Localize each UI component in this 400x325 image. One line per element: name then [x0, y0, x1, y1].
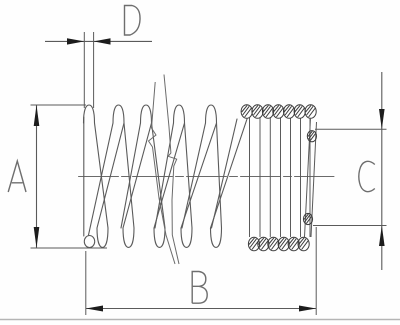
dimension B arrow right	[299, 306, 316, 312]
dimension D leader line	[45, 40, 152, 42]
dimension D extension line right	[93, 32, 95, 108]
dimension A extension top	[31, 104, 87, 106]
end wire section circle lower right	[303, 213, 312, 224]
break line B with jag	[164, 75, 179, 265]
back strand v4-c5	[181, 123, 217, 228]
spring coil cap 5	[206, 105, 217, 123]
dimension B arrow left	[86, 306, 103, 312]
dimension D extension line left	[83, 32, 85, 108]
label B	[192, 272, 207, 304]
dimension A arrow down	[34, 227, 40, 248]
front strand coil5 left	[182, 123, 206, 228]
back strand v5 to closed coils right	[211, 119, 248, 228]
label C	[359, 161, 375, 191]
front strand coil4 right	[185, 123, 193, 228]
label D	[125, 6, 141, 36]
spring valley 4	[181, 228, 192, 247]
spring valley 3	[154, 228, 165, 247]
front strand coil2 left	[89, 123, 114, 235]
spring valley 2	[123, 228, 134, 247]
dimension A extension bottom	[31, 247, 108, 249]
dimension A line	[36, 105, 38, 248]
dimension B line	[86, 308, 316, 310]
closed coil wire sections top row	[241, 105, 316, 119]
dimension C line	[381, 72, 383, 270]
spring valley 5	[211, 228, 222, 247]
end coil strand lines right	[305, 118, 317, 237]
spring valley 1	[97, 228, 108, 247]
spring coil cap 2	[113, 105, 124, 123]
closed coil vertical lines	[250, 118, 311, 237]
back strand v1-c2	[97, 123, 124, 228]
closed coil wire sections bottom row	[248, 237, 309, 251]
back strand v3-c4	[154, 123, 185, 228]
front strand coil4 left	[155, 123, 174, 228]
dimension D arrow right	[94, 38, 111, 44]
spring coil cap 4	[174, 105, 185, 123]
label A	[8, 161, 26, 192]
break line A with jag	[149, 82, 176, 264]
front strand coil3 right	[152, 123, 166, 228]
dimension C arrow up	[379, 226, 385, 247]
centerline	[79, 176, 335, 178]
dimension B extension right	[315, 227, 317, 315]
dimension D arrow left	[67, 38, 84, 44]
dimension C extension top	[315, 128, 387, 130]
dimension B extension left	[85, 251, 87, 315]
spring coil cap 1	[84, 105, 95, 123]
wire end left vertical	[83, 117, 85, 236]
dimension C arrow down	[379, 109, 385, 129]
front strand coil2 right	[124, 123, 134, 228]
front strand coil1 right	[95, 123, 109, 228]
spring coil cap 3	[141, 105, 152, 123]
back strand v2-c3	[123, 123, 152, 228]
front strand coil3 left	[121, 123, 141, 228]
back strand v5 to closed coils left	[212, 119, 238, 228]
end wire section circle upper right	[307, 131, 316, 142]
dimension C extension bottom	[313, 225, 387, 227]
wire end circle bottom left	[84, 236, 94, 248]
dimension A arrow up	[34, 105, 40, 126]
scan edge line bottom	[0, 319, 400, 321]
front strand coil5 right	[217, 123, 222, 228]
